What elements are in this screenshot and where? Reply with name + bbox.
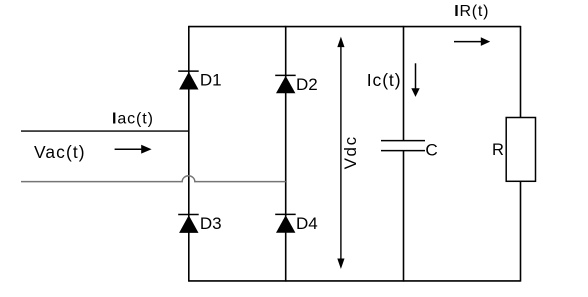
svg-text:D4: D4 (296, 214, 318, 233)
svg-text:Iac(t): Iac(t) (112, 110, 154, 127)
svg-text:R: R (492, 141, 504, 159)
svg-text:D3: D3 (200, 214, 222, 233)
svg-text:Ic(t): Ic(t) (367, 70, 402, 90)
svg-text:Vdc: Vdc (341, 135, 360, 169)
svg-text:Vac(t): Vac(t) (34, 142, 86, 162)
svg-text:D2: D2 (296, 75, 318, 94)
svg-text:D1: D1 (200, 71, 222, 90)
svg-text:C: C (425, 140, 437, 159)
svg-text:IR(t): IR(t) (454, 3, 489, 20)
